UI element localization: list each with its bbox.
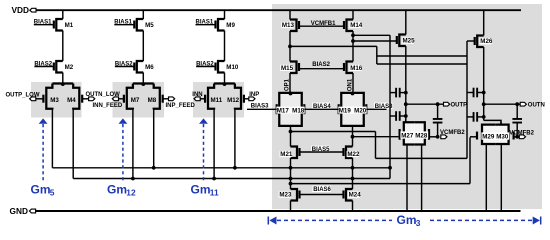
label M29 M30: [481, 132, 509, 139]
wire BIAS2 stub to M10 gate: [196, 66, 215, 68]
transistor M26: [477, 36, 484, 48]
wire M12 drain to net A: [234, 109, 236, 168]
junction net C tap: [289, 182, 293, 186]
wire M10 source to M11/M12 pair: [224, 73, 226, 84]
svg-text:Gm: Gm: [31, 183, 51, 197]
wire M27/M28 source stems to ground: [406, 145, 408, 212]
wire M30 gate to VCMFB2 port: [514, 136, 520, 138]
wire M6 source to M7/M8 pair: [142, 73, 144, 84]
transistor pair M29/M30 body: [482, 125, 509, 144]
junction M12 drain on net A: [233, 166, 237, 170]
wire M7/M8 common source bar: [133, 82, 154, 84]
wire CMFB cap to VCMFB2 node: [437, 125, 439, 137]
wire VDD to M25 drain: [405, 10, 407, 34]
wire ON1 node to M27 gate: [353, 136, 399, 138]
wire OUTP line: [406, 103, 444, 105]
junction C4 at M26 source: [482, 115, 486, 119]
wire M1 source to M2 drain: [62, 31, 64, 62]
wire VDD to M1 drain: [62, 10, 64, 19]
label BIAS3 (right, M20 gate net): [374, 103, 393, 109]
wire BIAS2 stub to M6 gate: [115, 66, 134, 68]
wire OUTN to CMFB cap: [516, 104, 518, 117]
wire M19/M20 source stem to M22 drain: [352, 126, 354, 147]
wire M26 source to M29/M30 pair: [484, 120, 501, 124]
wire M29 gate stub: [470, 136, 477, 138]
transistor M4: [73, 84, 79, 110]
transistor M27: [404, 122, 415, 144]
wire BIAS2 stub to M2 gate: [34, 66, 53, 68]
wire net C (to M29 gate): [291, 183, 471, 185]
port INN_FEED: [112, 97, 118, 101]
capacitor C6 (CMFB sense OUTN): [516, 117, 518, 119]
wire M2 source to M3/M4 pair: [62, 73, 64, 84]
capacitor C4 (comp OUTN lower): [467, 116, 474, 118]
svg-text:M21: M21: [280, 151, 293, 158]
transistor M1: [56, 19, 63, 31]
junction OUTN at branch: [482, 102, 486, 106]
svg-text:M12: M12: [227, 97, 240, 104]
wire M11 drain to net B: [213, 109, 215, 178]
Gm11 annotation arrow: [199, 118, 208, 123]
wire M27 gate lead: [398, 136, 399, 138]
svg-text:INP_FEED: INP_FEED: [166, 103, 196, 109]
svg-text:M17: M17: [277, 108, 290, 115]
junction OUTP cap tap: [436, 102, 440, 106]
svg-text:M24: M24: [349, 192, 362, 199]
wire M13 source to M15 drain: [289, 31, 291, 62]
wire M9 source to M10 drain: [224, 31, 226, 62]
transistor M29: [482, 125, 495, 144]
svg-text:M26: M26: [480, 38, 493, 45]
transistor M23: [291, 189, 298, 201]
svg-text:M5: M5: [145, 22, 154, 29]
svg-text:M14: M14: [350, 22, 363, 29]
transistor pair M19/M20 body: [341, 93, 364, 126]
port INP_FEED: [169, 97, 175, 101]
transistor M7: [127, 84, 133, 110]
junction M13 source tap: [288, 45, 292, 49]
wire VDD to M14 drain: [352, 10, 354, 19]
wire M17/M18 source stem to M21 drain: [290, 126, 292, 147]
wire INN_FEED port to M7 gate: [119, 98, 125, 100]
svg-text:M13: M13: [282, 22, 295, 29]
wire run to M26 gate: [377, 55, 467, 57]
svg-text:M30: M30: [496, 134, 509, 141]
label BIAS4 (M18/M19 gate net): [312, 103, 331, 109]
wire M24 source to ground: [352, 201, 354, 212]
junction VCMFB2 left node: [436, 135, 440, 139]
junction ON1 cascode node: [351, 135, 355, 139]
wire M26 gate feed: [467, 40, 475, 42]
svg-text:5: 5: [50, 187, 55, 197]
transistor M9: [218, 19, 225, 31]
wire M28 gate to VCMFB2 port: [429, 136, 438, 138]
Gm3 span arrow (double headed): [267, 217, 269, 225]
svg-text:INP: INP: [249, 92, 259, 98]
transistor M22: [346, 147, 353, 159]
power rail VDD: [36, 9, 521, 11]
Gm5 stage background box: [31, 82, 82, 118]
port INN: [194, 97, 200, 101]
transistor M16: [347, 62, 354, 74]
junction OP1 cascode node: [289, 130, 293, 134]
junction C1 at M25 source: [404, 91, 408, 95]
junction M19/M20 drain node: [351, 92, 355, 96]
svg-text:BIAS2: BIAS2: [312, 62, 330, 68]
svg-text:11: 11: [210, 187, 219, 197]
wire VDD to M9 drain: [224, 10, 226, 19]
wire M23 source to ground: [290, 201, 292, 212]
junction M22 source on net A: [351, 166, 355, 170]
wire right compensation riser: [466, 41, 468, 158]
junction M21 source on net B: [289, 177, 293, 181]
svg-text:3: 3: [416, 218, 421, 228]
Gm12 stage background box: [113, 82, 165, 118]
wire M14 source to compensation node: [353, 34, 390, 36]
port OUTN_LOW: [89, 97, 95, 101]
label M27 M28: [400, 131, 428, 138]
svg-text:M25: M25: [403, 38, 416, 45]
svg-text:M9: M9: [226, 22, 235, 29]
junction M11 drain on net B: [212, 177, 216, 181]
transistor M8: [154, 84, 160, 110]
wire BIAS1 stub to M5 gate: [114, 24, 134, 26]
transistor M10: [218, 61, 225, 73]
junction M3/M4 source node: [61, 82, 65, 86]
svg-text:OUTN: OUTN: [528, 103, 545, 109]
wire OUTN line: [484, 103, 518, 105]
capacitor C5 (CMFB sense OUTP): [437, 117, 439, 119]
port INP: [249, 97, 255, 101]
port VCMFB2: [519, 135, 525, 139]
port OUTP_LOW: [30, 97, 36, 101]
wire BIAS6 M23 gate to M24 gate: [300, 194, 344, 196]
junction net A to riser: [388, 166, 392, 170]
wire compensation riser left: [389, 35, 391, 178]
transistor M28: [414, 122, 425, 144]
wire M25 source (OUTP branch): [405, 46, 407, 122]
svg-text:M19: M19: [339, 108, 352, 115]
junction M14 source tap B: [351, 39, 355, 43]
junction M17/M18 drain node: [289, 92, 293, 96]
svg-text:Gm: Gm: [397, 213, 417, 227]
wire M3/M4 common source bar: [52, 82, 73, 84]
wire M14 source to M25 gate: [353, 40, 397, 42]
svg-text:M28: M28: [415, 133, 428, 140]
transistor M15: [290, 62, 297, 74]
wire OUTP_LOW port to M3 gate: [36, 98, 44, 100]
ground rail GND: [36, 210, 521, 212]
transistor M13: [290, 20, 297, 32]
transistor M24: [346, 189, 353, 201]
wire M29/M30 source stems to ground: [485, 144, 487, 211]
transistor pair M17/M18 body: [279, 93, 302, 126]
junction branch on net A: [289, 166, 293, 170]
port VDD: [30, 8, 36, 12]
wire net C riser: [469, 137, 471, 183]
svg-text:M11: M11: [210, 97, 222, 104]
svg-text:M22: M22: [347, 151, 360, 158]
wire CMFB cap to VCMFB2 right node: [516, 125, 518, 137]
junction M11/M12 source node: [223, 82, 227, 86]
junction C2 at M25 source: [404, 114, 408, 118]
transistor M11: [208, 84, 214, 110]
transistor M12: [235, 84, 241, 110]
wire BIAS4 M18 gate to M19 gate: [304, 108, 338, 110]
svg-text:M27: M27: [401, 133, 414, 140]
Gm11 stage background box: [193, 82, 244, 118]
port VCMFB2: [441, 135, 447, 139]
wire M21 source to M23 drain: [290, 158, 292, 189]
wire INN port to M11 gate: [200, 98, 205, 100]
svg-text:OP1: OP1: [284, 78, 290, 91]
wire VDD to M26 drain: [483, 10, 485, 35]
wire M26 source (OUTN branch): [483, 47, 485, 120]
svg-text:GND: GND: [10, 206, 28, 216]
wire BIAS1 stub to M9 gate: [196, 24, 216, 26]
svg-text:BIAS6: BIAS6: [313, 187, 331, 193]
svg-text:M4: M4: [67, 97, 76, 104]
wire M5 source to M6 drain: [142, 31, 144, 62]
transistor M30: [495, 125, 508, 144]
port OUTP: [444, 102, 450, 106]
svg-text:M2: M2: [65, 64, 74, 71]
wire node ON1 (M16 source to M19/M20 pair): [352, 73, 354, 93]
svg-text:Gm: Gm: [191, 183, 211, 197]
svg-text:12: 12: [126, 187, 136, 197]
transistor M3: [46, 84, 52, 110]
wire node OP1 (M15 source to M17/M18 pair): [289, 73, 291, 93]
transistor M21: [291, 147, 298, 159]
transistor M17: [279, 93, 290, 126]
port GND: [29, 209, 35, 213]
wire M8 gate to INP_FEED port: [163, 98, 169, 100]
svg-text:M18: M18: [292, 108, 305, 115]
svg-text:M7: M7: [131, 97, 140, 104]
svg-text:Gm: Gm: [107, 183, 127, 197]
transistor M19: [341, 93, 352, 126]
svg-text:M23: M23: [279, 192, 292, 199]
transistor M6: [137, 61, 144, 73]
wire VCMFB1 M13 gate to M14 gate: [299, 25, 344, 27]
junction VCMFB2 right node: [515, 135, 519, 139]
wire cross run riser: [376, 46, 378, 64]
wire M7 drain to net B: [132, 109, 134, 178]
wire net B (M4+M7+M11 drains): [73, 178, 390, 180]
transistor M2: [56, 61, 63, 73]
junction OUTN cap tap: [515, 102, 519, 106]
junction M14 source tap A: [351, 33, 355, 37]
transistor M25: [399, 35, 406, 47]
wire M4 gate to OUTN_LOW port: [82, 98, 89, 100]
junction M8 drain on net A: [152, 166, 156, 170]
wire M13 source cross run: [290, 45, 377, 47]
Gm5 annotation arrow: [39, 118, 48, 123]
junction M7/M8 source node: [141, 82, 145, 86]
wire BIAS3 stub to M17 gate: [247, 108, 277, 110]
svg-text:M15: M15: [281, 65, 294, 72]
wire M14 source to M16 drain: [352, 31, 354, 62]
transistor M14: [347, 20, 354, 32]
capacitor C2 (comp OUTP lower): [390, 115, 396, 117]
svg-text:M3: M3: [50, 97, 59, 104]
wire run to right compensation node: [377, 63, 467, 65]
transistor M18: [291, 93, 302, 126]
label M19 M20: [338, 107, 366, 114]
svg-text:OUTP: OUTP: [451, 103, 468, 109]
svg-text:M20: M20: [354, 108, 367, 115]
wire VDD to M13 drain: [289, 10, 291, 19]
wire M27/M28 top stem: [405, 119, 407, 122]
svg-text:M16: M16: [350, 65, 363, 72]
wire M22 source to M24 drain: [352, 158, 354, 189]
svg-text:M10: M10: [226, 64, 239, 71]
wire net A (M3+M8+M12 drains): [52, 167, 390, 169]
wire OUTP to CMFB cap: [437, 104, 439, 117]
svg-text:M1: M1: [65, 22, 74, 29]
wire BIAS1 stub to M1 gate: [34, 24, 54, 26]
wire BIAS2 M15 gate to M16 gate: [299, 68, 344, 70]
svg-text:M6: M6: [145, 64, 154, 71]
Gm12 annotation arrow: [119, 118, 128, 123]
wire BIAS5 M21 gate to M22 gate: [300, 151, 344, 153]
label M17 M18: [276, 107, 304, 114]
port OUTN: [520, 102, 526, 106]
wire OP1 cross riser: [375, 132, 377, 159]
transistor M5: [137, 19, 144, 31]
wire M3 drain to net A: [51, 109, 53, 168]
transistor pair M27/M28 body: [404, 122, 425, 144]
Gm3 block background: [272, 4, 542, 209]
wire M4 drain to net B: [72, 109, 74, 178]
label BIAS5 (M21/M22 gate net): [311, 146, 330, 152]
junction OUTP at branch: [404, 102, 408, 106]
wire M29/M30 top stem: [500, 122, 502, 125]
wire OP1 cross to right branch: [376, 157, 468, 159]
capacitor C3 (comp OUTN upper): [467, 92, 474, 94]
svg-text:VDD: VDD: [12, 5, 30, 15]
transistor M20: [353, 93, 364, 126]
capacitor C1 (comp OUTP upper): [390, 92, 396, 94]
wire M20 gate BIAS3 stub: [366, 108, 386, 110]
wire OUTN port stub: [517, 103, 520, 105]
wire M8 drain to net A: [153, 109, 155, 168]
junction branch on net B: [351, 177, 355, 181]
wire VDD to M5 drain: [142, 10, 144, 19]
svg-text:ON1: ON1: [347, 78, 353, 91]
wire OP1 cascode cross run: [291, 131, 376, 133]
label BIAS6 (M23/M24 gate net): [312, 186, 331, 192]
junction C3 at M26 source: [482, 91, 486, 95]
svg-text:M29: M29: [482, 134, 495, 141]
junction M7 drain on net B: [131, 177, 135, 181]
wire M12 gate to INP port: [244, 98, 249, 100]
svg-text:M8: M8: [148, 97, 157, 104]
svg-text:INN_FEED: INN_FEED: [93, 103, 123, 109]
wire M11/M12 common source bar: [214, 82, 235, 84]
